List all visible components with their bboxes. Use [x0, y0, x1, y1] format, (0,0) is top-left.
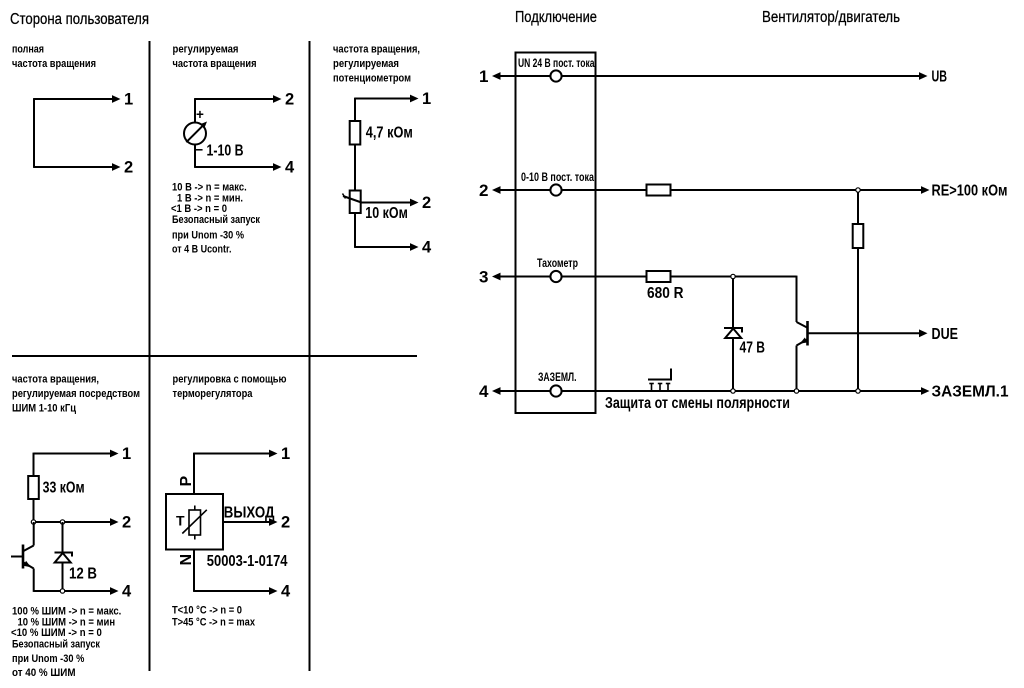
chassis ground symbol — [648, 369, 671, 391]
svg-text:1-10 В: 1-10 В — [207, 143, 244, 160]
vertical wire from RE resistor to line 4 — [857, 248, 859, 391]
svg-text:3: 3 — [479, 268, 488, 287]
svg-text:2: 2 — [281, 514, 290, 532]
cell4 node on line2 left — [31, 520, 35, 524]
wire line 3 (tachometer) — [492, 273, 797, 281]
zener diode 47 В wire top — [732, 279, 734, 329]
svg-text:10 кОм: 10 кОм — [365, 205, 408, 222]
cell3 wire to terminal 1 — [355, 95, 419, 103]
cell5 wire terminal1 to box (pin P) — [193, 453, 195, 494]
potentiometer wiper arrow — [343, 194, 362, 203]
svg-text:2: 2 — [285, 91, 294, 109]
svg-text:от 40 % ШИМ: от 40 % ШИМ — [12, 667, 76, 679]
cell5 note lines — [172, 605, 255, 629]
zener diode 47 В — [724, 328, 742, 338]
zener diode 12 В — [55, 553, 73, 563]
zener diode 12 В wire bottom — [62, 563, 64, 592]
cell3 wire R to potentiometer — [354, 145, 356, 191]
grid horizontal divider — [12, 355, 417, 357]
grid vertical divider 1 — [149, 41, 151, 671]
svg-text:Защита от смены полярности: Защита от смены полярности — [605, 395, 790, 412]
cell3 wire potentiometer to terminal 4 — [354, 213, 356, 248]
connection box — [516, 53, 596, 414]
svg-text:терморегулятора: терморегулятора — [173, 388, 254, 400]
svg-text:47 В: 47 В — [740, 340, 766, 357]
svg-text:−: − — [195, 142, 203, 158]
svg-text:частота вращения: частота вращения — [12, 58, 96, 70]
cell4 wire to terminal 2 — [34, 518, 119, 526]
node on line 4 under transistor — [794, 389, 798, 393]
svg-text:Безопасный запуск: Безопасный запуск — [172, 214, 261, 226]
node on line 4 under resistor RE — [856, 389, 860, 393]
thermostat box U1 — [166, 494, 223, 550]
svg-text:регулируемая: регулируемая — [333, 58, 399, 70]
svg-text:RE>100 кОм: RE>100 кОм — [932, 183, 1008, 200]
cell3 wiper wire to terminal 2 — [361, 199, 419, 207]
cell5 wire to terminal 4 — [194, 587, 278, 595]
svg-text:ШИМ 1-10 кГц: ШИМ 1-10 кГц — [12, 403, 76, 415]
svg-text:Подключение: Подключение — [515, 9, 597, 26]
svg-text:2: 2 — [122, 514, 131, 532]
svg-text:4: 4 — [122, 583, 132, 601]
svg-text:1: 1 — [479, 67, 488, 86]
svg-text:2: 2 — [479, 181, 488, 200]
resistor on line 2 — [647, 185, 671, 196]
cell2 wire from terminal2 down to source — [194, 98, 196, 122]
cell3 wire terminal1 to R — [354, 98, 356, 121]
wire DUE from transistor base — [808, 329, 928, 337]
resistor RE body — [853, 224, 864, 248]
resistor 33 кОм body — [28, 476, 39, 499]
wire line 2 (0-10 V) — [492, 186, 930, 194]
svg-text:2: 2 — [124, 159, 133, 177]
svg-text:1: 1 — [281, 445, 290, 463]
cell3 wire to terminal 4 — [355, 243, 419, 251]
svg-text:4,7 кОм: 4,7 кОм — [366, 124, 413, 141]
svg-text:UN 24 В пост. тока: UN 24 В пост. тока — [518, 58, 595, 70]
cell4 wire to terminal 1 — [34, 450, 119, 458]
svg-text:T>45 °C -> n = max: T>45 °C -> n = max — [172, 617, 255, 629]
svg-text:при Unom -30 %: при Unom -30 % — [12, 653, 85, 665]
voltage source G1 circle — [184, 123, 206, 145]
thermistor symbol inside box — [182, 506, 207, 540]
svg-text:<10 % ШИМ -> n = 0: <10 % ШИМ -> n = 0 — [11, 627, 102, 639]
cell4 note lines — [11, 606, 121, 680]
resistor 680 R body — [647, 271, 671, 282]
cell4 node on line4 — [60, 589, 64, 593]
svg-text:N: N — [178, 554, 195, 566]
node on line 3 — [731, 274, 735, 278]
cell2 note lines — [171, 182, 261, 256]
cell4 wire R to node — [33, 499, 35, 522]
cell1 wire to terminal 2 — [34, 163, 121, 171]
svg-text:Р: Р — [178, 476, 195, 487]
cell4 wire terminal1 to R — [33, 453, 35, 476]
terminal 2 contact circle — [550, 184, 561, 195]
voltage source G1 adjust arrow — [186, 122, 207, 143]
svg-text:ЗАЗЕМЛ.1: ЗАЗЕМЛ.1 — [932, 384, 1009, 401]
cell2 wire to terminal 4 — [195, 163, 282, 171]
transistor Q1 — [11, 545, 34, 569]
svg-text:полная: полная — [12, 44, 44, 56]
node on line 2 — [856, 188, 860, 192]
svg-text:потенциометром: потенциометром — [333, 73, 411, 85]
cell5 wire box to terminal 2 — [223, 518, 278, 526]
cell2 caption: регулируемая частота вращения — [173, 44, 257, 71]
cell4 wire to terminal 4 — [34, 587, 119, 595]
cell1 vertical wire — [33, 98, 35, 168]
transistor Q1 emitter wire — [33, 569, 35, 592]
svg-text:регулируемая: регулируемая — [173, 44, 239, 56]
svg-text:4: 4 — [281, 583, 291, 601]
svg-text:1: 1 — [124, 91, 133, 109]
cell4 node on line2 right — [60, 520, 64, 524]
cell4 caption: частота вращения, регулируемая посредством ШИМ 1-10 кГц — [12, 374, 140, 415]
svg-text:Т: Т — [176, 513, 185, 529]
wire line 4 (ground) — [492, 387, 930, 395]
svg-text:частота вращения,: частота вращения, — [12, 374, 99, 386]
terminal 3 contact circle — [550, 271, 561, 282]
cell1 wire to terminal 1 — [34, 95, 121, 103]
svg-text:1: 1 — [422, 90, 431, 108]
zener diode 47 В wire bottom — [732, 338, 734, 391]
svg-text:4: 4 — [479, 382, 489, 401]
grid vertical divider 2 — [309, 41, 311, 671]
node on line 4 under zener — [731, 389, 735, 393]
svg-text:ВЫХОД: ВЫХОД — [224, 505, 275, 522]
svg-text:4: 4 — [285, 159, 295, 177]
svg-text:50003-1-0174: 50003-1-0174 — [207, 553, 288, 570]
wire line 1 (UN 24 V) — [492, 72, 928, 80]
potentiometer 10 кОм body — [350, 191, 361, 214]
resistor 4,7 кОм body — [350, 121, 361, 145]
cell5 wire to terminal 1 — [194, 450, 278, 458]
svg-text:частота вращения: частота вращения — [173, 58, 257, 70]
vertical wire from line2 to RE resistor — [857, 192, 859, 224]
svg-text:при Unom -30 %: при Unom -30 % — [172, 230, 244, 242]
svg-text:Вентилятор/двигатель: Вентилятор/двигатель — [762, 9, 900, 26]
svg-text:T<10 °C -> n = 0: T<10 °C -> n = 0 — [172, 605, 242, 617]
cell5 caption: регулировка с помощью терморегулятора — [173, 374, 287, 401]
svg-text:1: 1 — [122, 445, 131, 463]
svg-text:DUE: DUE — [932, 326, 959, 343]
transistor Q2 emitter wire to line4 — [796, 346, 798, 392]
transistor Q2 collector wire from line3 — [796, 276, 798, 322]
svg-text:Безопасный запуск: Безопасный запуск — [12, 639, 101, 651]
svg-text:ЗАЗЕМЛ.: ЗАЗЕМЛ. — [538, 372, 577, 384]
svg-text:регулируемая посредством: регулируемая посредством — [12, 388, 140, 400]
svg-text:4: 4 — [422, 239, 432, 257]
svg-text:Сторона пользователя: Сторона пользователя — [10, 11, 149, 28]
svg-text:частота вращения,: частота вращения, — [333, 44, 420, 56]
svg-text:регулировка с помощью: регулировка с помощью — [173, 374, 287, 386]
svg-text:Тахометр: Тахометр — [537, 258, 578, 270]
svg-text:12 В: 12 В — [69, 566, 97, 583]
cell2 wire to terminal 2 — [195, 95, 282, 103]
transistor Q1 collector wire — [33, 522, 35, 546]
cell5 wire box (pin N) to terminal 4 — [193, 550, 195, 592]
terminal 1 contact circle — [550, 70, 561, 81]
svg-text:0-10 В пост. тока: 0-10 В пост. тока — [521, 172, 594, 184]
cell1 caption: полная частота вращения — [12, 44, 96, 71]
transistor Q2 — [797, 321, 808, 346]
svg-text:UB: UB — [932, 69, 948, 86]
svg-text:2: 2 — [422, 194, 431, 212]
svg-text:680 R: 680 R — [647, 285, 684, 302]
cell2 wire from source down to terminal 4 — [194, 145, 196, 168]
zener diode 12 В wire top — [62, 522, 64, 553]
svg-text:+: + — [196, 107, 204, 122]
svg-text:от 4 В Ucontr.: от 4 В Ucontr. — [172, 244, 232, 256]
terminal 4 contact circle — [550, 385, 561, 396]
cell3 caption: частота вращения, регулируемая потенциометром — [333, 44, 420, 85]
svg-text:33 кОм: 33 кОм — [43, 480, 85, 497]
